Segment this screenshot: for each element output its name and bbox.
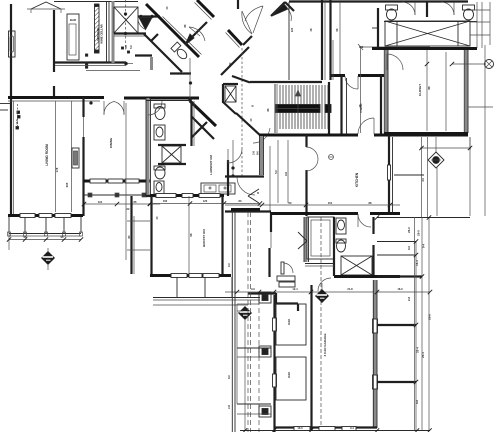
wall x330 <box>329 0 331 80</box>
niche x-box by stairs <box>225 86 236 102</box>
porch dim line <box>9 239 81 241</box>
rung y107 right edge <box>468 106 493 108</box>
gallery top entry wall <box>288 2 290 80</box>
rear entry door <box>281 262 284 274</box>
wall from gallery to stair block <box>232 76 250 83</box>
right rung y382 <box>377 381 416 383</box>
stair treads <box>280 85 328 129</box>
center wall x322 <box>321 0 323 80</box>
dining porch rail <box>84 194 160 196</box>
cased opening dashes <box>241 48 243 176</box>
linen x-box <box>162 146 181 163</box>
dim line closet bottom <box>420 147 471 149</box>
right dim rungs <box>470 9 490 11</box>
kitchen door to mudroom <box>358 214 371 227</box>
services center wall <box>190 101 192 146</box>
powder door arc <box>345 76 358 89</box>
colonnade rails <box>237 303 259 305</box>
left dim dots <box>17 111 20 114</box>
closet bottom wall <box>384 132 468 135</box>
sink2 <box>154 181 164 194</box>
stair left boundary <box>274 84 276 133</box>
column box 1 <box>259 292 271 303</box>
toilet hall line <box>384 21 477 23</box>
kitchen dim line <box>225 204 400 206</box>
court dim extension up <box>232 140 234 176</box>
garage bays <box>276 304 306 345</box>
powder room walls <box>340 75 342 134</box>
toilet room divider <box>426 2 428 17</box>
svg-text:12-4: 12-4 <box>292 287 298 291</box>
breakfast bottom windows <box>171 274 187 278</box>
big x-brace box <box>385 21 470 46</box>
kitchen top door arc <box>358 118 374 134</box>
mudroom west wall lower <box>333 217 335 276</box>
washer dryer counter <box>201 183 235 194</box>
dim ticks closet <box>419 146 423 150</box>
rear hall walls <box>225 210 271 212</box>
dim line y48 <box>360 46 430 48</box>
svg-text:12-8: 12-8 <box>15 119 19 125</box>
closet center line <box>426 50 428 131</box>
court left dim <box>236 304 238 404</box>
mudroom south wall <box>334 275 400 278</box>
svg-text:24: 24 <box>421 178 425 182</box>
svg-text:5-0: 5-0 <box>274 170 278 174</box>
closet bottom wall <box>114 32 146 34</box>
diamond marker D5 <box>238 306 252 320</box>
svg-text:BAR: BAR <box>70 18 76 22</box>
bar counter <box>67 14 79 60</box>
dim ticks breakfast <box>148 201 152 205</box>
dim ticks left of wall <box>86 54 88 56</box>
gallery NE corridor NW wall <box>185 22 207 44</box>
garage east wall <box>374 280 377 319</box>
pantry cabinet <box>307 217 334 259</box>
hall bottom wall <box>146 195 160 197</box>
breakfast porch rails <box>153 297 260 299</box>
top edge line <box>54 1 138 3</box>
toilet left oval <box>387 9 397 20</box>
breakfast porch posts <box>176 277 178 297</box>
court dashed lines <box>247 212 249 432</box>
right rung y217 <box>377 217 470 219</box>
lobby top wall <box>138 15 160 17</box>
living room windows bottom <box>20 214 35 218</box>
mudroom angled door <box>298 232 307 241</box>
svg-text:8-0: 8-0 <box>227 375 231 379</box>
svg-text:21-8: 21-8 <box>347 287 353 291</box>
dim ticks dining porch <box>82 202 86 206</box>
kitchen ceiling mark <box>329 155 334 160</box>
angled toilet <box>175 47 188 60</box>
prow dim verticals <box>277 140 279 203</box>
powder toilet <box>155 107 165 120</box>
kitchen east wall window <box>388 165 391 180</box>
porch rail living <box>9 233 81 235</box>
toilet right door <box>441 2 454 15</box>
dim ticks porch <box>7 237 11 241</box>
right rung y241 <box>377 241 416 243</box>
right vertical x429 <box>428 217 430 430</box>
services dim line x190 <box>189 58 191 100</box>
svg-text:2-8: 2-8 <box>407 297 411 301</box>
diamond marker D3 <box>315 289 329 303</box>
svg-text:124: 124 <box>98 200 103 204</box>
svg-text:178: 178 <box>55 167 59 172</box>
gallery NW arm SW wall <box>146 4 199 57</box>
column box 2 <box>259 346 271 357</box>
main horizontal wall y134 <box>259 134 358 137</box>
kitchen bottom wall <box>271 212 358 215</box>
angled door leaf <box>248 189 259 196</box>
stair block top wall <box>250 81 322 83</box>
hall wall left of toilets <box>377 8 379 48</box>
window seat <box>72 148 79 168</box>
kitchen arm NE wall <box>221 47 249 75</box>
hall west wall hatched <box>147 98 150 196</box>
svg-text:3 CAR GARAGE: 3 CAR GARAGE <box>323 333 327 356</box>
prow door arc <box>237 177 255 195</box>
dim ticks kitchen <box>260 203 264 207</box>
top wall right wing <box>289 0 468 2</box>
closet x-box top <box>114 7 138 33</box>
svg-text:20-4: 20-4 <box>421 352 425 358</box>
colonnade dashed line <box>258 292 260 432</box>
diamond marker D4 <box>428 152 444 168</box>
mudroom bench <box>305 263 334 265</box>
stair right wall <box>328 82 330 134</box>
svg-text:26-0: 26-0 <box>407 227 411 233</box>
terrace west vertical <box>130 196 132 274</box>
rear hall south wall <box>248 292 276 294</box>
garage doors <box>294 427 310 431</box>
powder sink <box>154 125 165 140</box>
svg-text:CLOSET: CLOSET <box>418 84 422 96</box>
svg-text:2-8: 2-8 <box>252 151 256 155</box>
great room west wall stub <box>237 0 239 9</box>
mudroom toilet <box>337 240 346 252</box>
closet right dim <box>469 137 471 216</box>
prow south wall <box>225 175 264 177</box>
svg-text:205: 205 <box>65 182 69 187</box>
great room door leaf filled <box>272 4 288 16</box>
gallery door arc west <box>189 27 205 41</box>
prow west hatched wall <box>260 136 263 175</box>
powder closet wall diagonal <box>144 34 182 72</box>
SE arm SW wall A1 <box>190 101 216 126</box>
kitchen butterfly doors <box>306 147 318 159</box>
left wall step lines <box>0 103 11 105</box>
column box 3 <box>259 406 271 417</box>
breakfast west wall <box>150 196 152 277</box>
target marker right <box>452 63 486 65</box>
left outer wall <box>10 4 12 216</box>
dim line garage top <box>225 291 430 293</box>
wall niche cabinet <box>9 31 16 57</box>
svg-text:160: 160 <box>163 199 168 203</box>
terrace rails <box>127 220 150 222</box>
rear hall east dim <box>269 146 271 211</box>
bottom dim line <box>240 430 430 432</box>
garage door wall <box>274 426 377 428</box>
closet right wall <box>463 50 465 133</box>
living room right wall <box>82 97 84 117</box>
dining double door arcs <box>104 102 114 115</box>
living room interior lines <box>55 101 57 212</box>
gallery door petal 1 <box>242 11 252 34</box>
bay gable top-left <box>31 2 61 9</box>
svg-text:5-0: 5-0 <box>129 45 133 49</box>
svg-text:LIVING ROOM: LIVING ROOM <box>45 144 49 166</box>
dining windows <box>90 179 106 183</box>
dim ticks garage top <box>235 290 239 294</box>
breakfast top wall <box>150 194 224 197</box>
laundry door arc <box>228 149 242 163</box>
closet left wall <box>383 50 385 133</box>
mudroom center dim <box>320 217 322 430</box>
dim verticals right column <box>421 137 423 217</box>
svg-text:5-0: 5-0 <box>124 45 128 49</box>
living room top wall <box>8 96 104 99</box>
svg-text:9-6: 9-6 <box>415 400 419 404</box>
breakfast east wall <box>221 196 223 277</box>
wine cellar hatched wall <box>95 6 100 52</box>
svg-text:150: 150 <box>359 45 364 49</box>
walls to kitchen corner <box>223 102 236 114</box>
mudroom door arc <box>318 278 331 291</box>
svg-text:WINE CELLAR: WINE CELLAR <box>100 24 104 43</box>
mudroom west wall <box>305 217 308 262</box>
line x341 <box>339 2 341 74</box>
svg-text:9-8: 9-8 <box>284 172 288 176</box>
svg-text:BRKFST RM: BRKFST RM <box>202 229 206 247</box>
svg-text:9x18: 9x18 <box>287 319 291 325</box>
svg-text:20-4: 20-4 <box>416 347 420 353</box>
lobby south wall <box>135 54 152 56</box>
svg-text:9-0: 9-0 <box>407 246 411 250</box>
hall door arc to kitchen <box>253 128 270 143</box>
right rung y255 <box>377 254 416 256</box>
right side rung y175 <box>394 174 424 176</box>
svg-text:120: 120 <box>203 199 208 203</box>
kitchen east wall <box>388 135 390 214</box>
powder dim vertical <box>360 47 362 133</box>
closet door arc <box>387 54 403 70</box>
toilet left door <box>402 2 415 15</box>
gallery crossing wall <box>228 30 242 45</box>
court west wall <box>231 208 233 432</box>
dining south wall <box>84 180 150 183</box>
svg-text:9x18: 9x18 <box>287 372 291 378</box>
garage west wall <box>273 295 275 432</box>
mudroom east wall <box>372 217 374 234</box>
stair rail dark bar <box>276 105 320 113</box>
breakfast center line <box>188 196 190 277</box>
svg-text:154: 154 <box>328 201 333 205</box>
prow peak wall <box>191 122 207 138</box>
powder north wall <box>146 100 190 102</box>
dining porch dim <box>84 203 160 205</box>
living room bottom wall <box>8 214 83 217</box>
svg-text:8-0: 8-0 <box>256 151 260 155</box>
garage center wall <box>310 285 312 430</box>
svg-text:16-0: 16-0 <box>397 287 403 291</box>
svg-text:8-4: 8-4 <box>422 244 426 248</box>
lobby door leaf <box>139 18 152 30</box>
bar wall <box>53 10 55 72</box>
right rung y276 <box>377 275 422 277</box>
porch posts living <box>8 217 10 233</box>
toilet2 <box>155 167 165 179</box>
svg-text:9-4: 9-4 <box>350 426 354 430</box>
west door leaf filled <box>185 34 194 45</box>
stair up arrow <box>297 90 299 127</box>
wine cellar bottom wall <box>55 61 126 63</box>
svg-text:120: 120 <box>290 27 294 32</box>
right dim verticals top <box>476 2 478 48</box>
dim ticks bottom <box>243 428 247 432</box>
svg-text:KITCHEN: KITCHEN <box>355 172 359 187</box>
hall end wall y73 <box>170 72 191 74</box>
mudroom x-box <box>341 256 372 275</box>
court north wall <box>231 208 260 211</box>
gallery door petal 2 <box>245 6 263 21</box>
laundry right wall <box>227 160 229 196</box>
svg-text:96: 96 <box>189 233 193 237</box>
svg-text:16-4: 16-4 <box>415 260 419 266</box>
breakfast dim line top <box>150 203 260 205</box>
svg-text:10-0: 10-0 <box>297 426 303 430</box>
gallery NW arm NE wall <box>197 0 214 17</box>
powder south wall <box>331 74 345 77</box>
svg-text:9-0: 9-0 <box>251 287 255 291</box>
svg-text:2-8: 2-8 <box>227 405 231 409</box>
dim ticks right rungs <box>414 239 418 243</box>
gallery NE corridor SE wall <box>243 36 252 45</box>
closet center dashed <box>125 0 127 50</box>
wall above closet <box>372 47 477 50</box>
svg-text:28-0: 28-0 <box>417 230 421 236</box>
mudroom sink vanity <box>336 218 346 234</box>
powder notch branch <box>151 34 158 41</box>
right vertical x416 <box>415 241 417 430</box>
kitchen west wall <box>305 135 307 147</box>
right vertical x422 <box>421 217 423 430</box>
svg-text:9-0: 9-0 <box>227 263 231 267</box>
diamond marker D1 <box>41 251 55 265</box>
breakfast top windows <box>156 194 176 198</box>
breakfast bottom wall <box>150 274 231 277</box>
SE arm wall A2 <box>191 116 214 139</box>
court dim tick <box>237 310 243 312</box>
svg-text:DINING: DINING <box>109 137 113 148</box>
step line y70 <box>86 70 140 72</box>
garage east windows <box>373 319 378 333</box>
svg-text:86: 86 <box>427 86 431 90</box>
right rung y325 <box>377 324 416 326</box>
toilet right oval <box>464 9 474 20</box>
svg-text:LAUNDRY RM: LAUNDRY RM <box>209 154 213 175</box>
svg-text:R: R <box>257 191 259 195</box>
svg-text:28-6: 28-6 <box>428 314 432 320</box>
breakfast porch dim <box>153 304 248 306</box>
great room door arc <box>287 8 291 21</box>
powder door arc <box>148 101 162 115</box>
closet side walls <box>106 1 108 63</box>
